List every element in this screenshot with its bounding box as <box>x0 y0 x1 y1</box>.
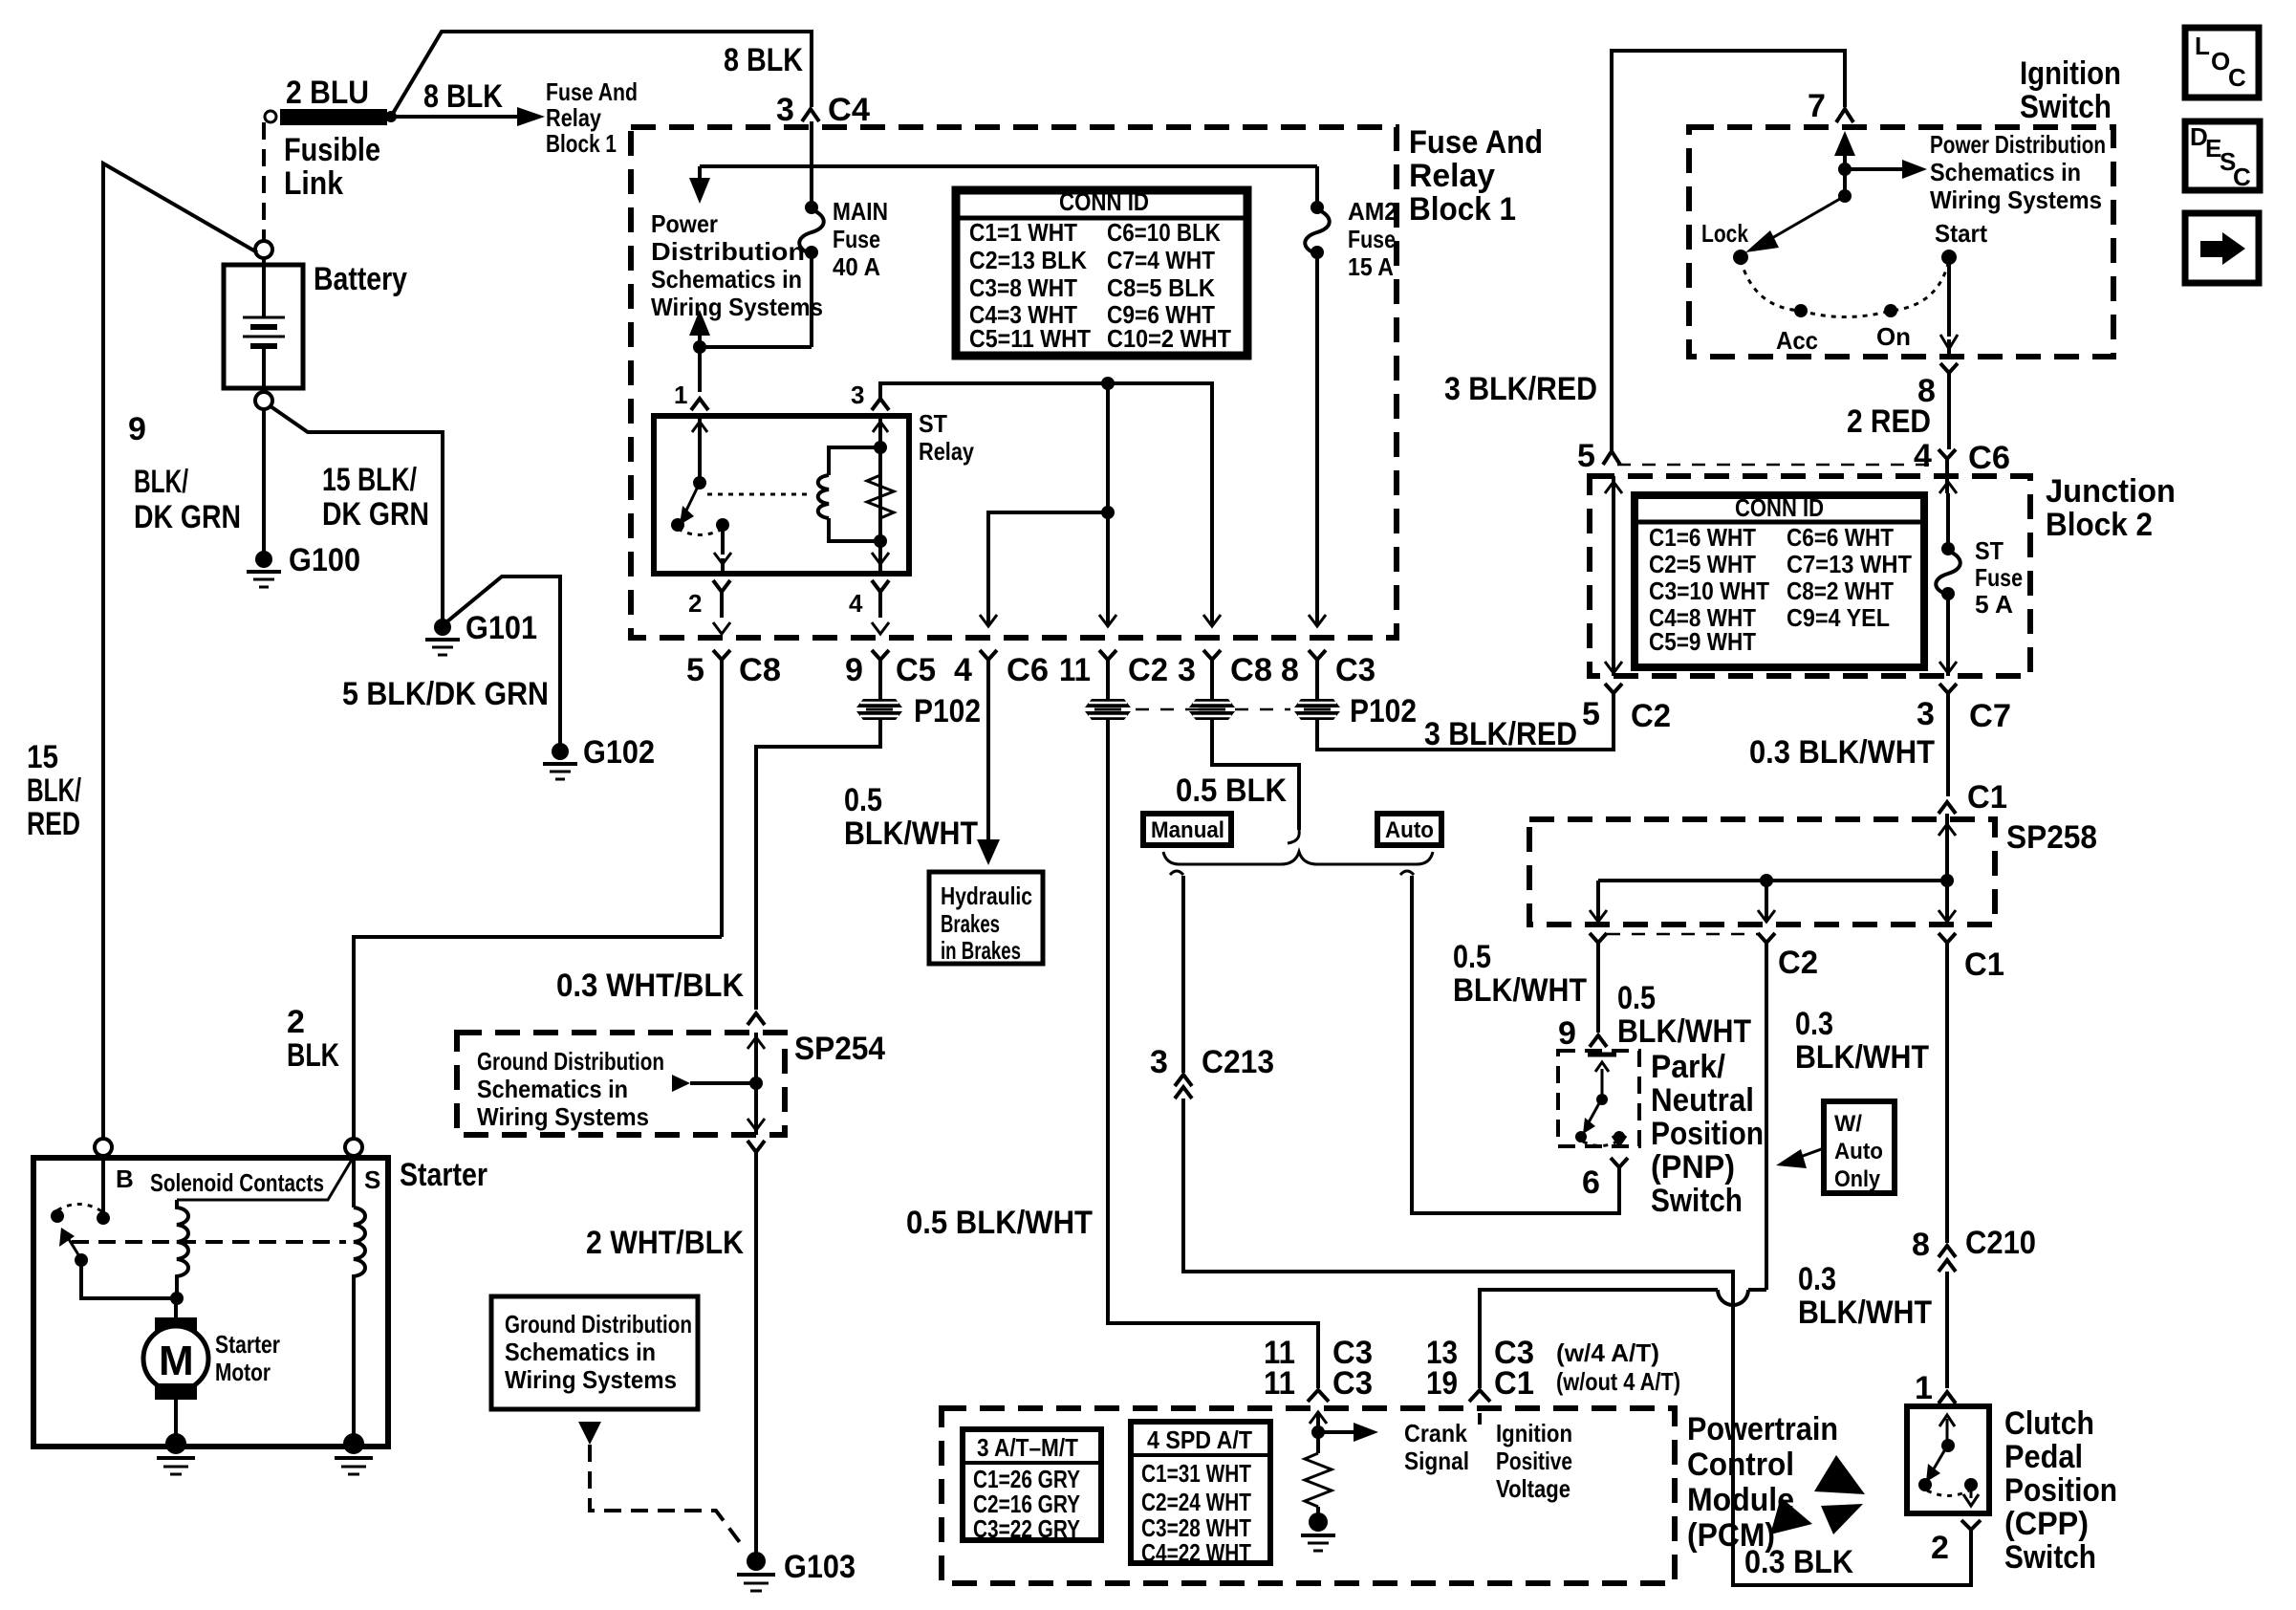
svg-text:C3=10 WHT: C3=10 WHT <box>1649 577 1769 605</box>
svg-text:C9=4 YEL: C9=4 YEL <box>1787 603 1890 632</box>
svg-text:15 A: 15 A <box>1348 252 1394 281</box>
svg-text:C1: C1 <box>1967 779 2007 816</box>
svg-text:CONN ID: CONN ID <box>1735 493 1824 522</box>
svg-text:P102: P102 <box>914 693 981 729</box>
svg-text:Block 2: Block 2 <box>2046 507 2153 543</box>
arrow up stub to junction <box>689 310 812 392</box>
ground G102 <box>543 734 655 779</box>
svg-text:BLK/: BLK/ <box>134 464 188 500</box>
svg-text:Fusible: Fusible <box>284 132 380 168</box>
connector 5 above JB2 <box>1577 438 1620 474</box>
ground G101 <box>425 610 537 655</box>
arrow down to Power Distribution text <box>689 166 710 204</box>
P102 connector at C5 <box>856 693 981 729</box>
svg-text:BLK/WHT: BLK/WHT <box>844 816 978 852</box>
P102 connector at C2 <box>1085 699 1131 720</box>
svg-text:Only: Only <box>1834 1166 1881 1192</box>
svg-text:Switch: Switch <box>1651 1183 1743 1219</box>
wire fusible link to battery (dashed) <box>262 122 266 241</box>
Park/Neutral Position (PNP) Switch dashed box <box>1558 1049 1764 1219</box>
svg-text:5: 5 <box>686 652 704 688</box>
svg-text:8: 8 <box>1281 652 1299 688</box>
Powertrain Control Module (PCM) dashed box <box>942 1408 1675 1583</box>
svg-text:Pedal: Pedal <box>2004 1439 2083 1475</box>
JB2 left wire <box>1605 476 1622 676</box>
svg-text:8 BLK: 8 BLK <box>724 42 803 78</box>
svg-text:3 BLK/RED: 3 BLK/RED <box>1424 716 1577 752</box>
svg-text:W/: W/ <box>1834 1111 1862 1137</box>
relay pin 2 <box>688 580 730 634</box>
ignition internals <box>1701 130 2106 355</box>
connector 11 C2 <box>1059 650 1168 699</box>
svg-text:C7=13 WHT: C7=13 WHT <box>1787 550 1912 578</box>
svg-text:C1=6 WHT: C1=6 WHT <box>1649 523 1756 552</box>
svg-text:ST: ST <box>919 409 947 438</box>
svg-text:P102: P102 <box>1350 693 1417 729</box>
svg-text:C1: C1 <box>1964 946 2004 983</box>
label 2 BLK <box>287 1004 339 1074</box>
svg-text:Control: Control <box>1687 1447 1794 1483</box>
svg-text:AM2: AM2 <box>1348 197 1397 226</box>
connector 3 C8b <box>1178 650 1272 699</box>
svg-text:Switch: Switch <box>2004 1539 2096 1576</box>
svg-text:C7: C7 <box>1969 698 2011 734</box>
svg-text:Park/: Park/ <box>1651 1049 1726 1085</box>
svg-text:4: 4 <box>849 589 863 618</box>
ST relay box <box>654 416 909 574</box>
pull-in winding <box>170 1200 188 1305</box>
PCM crank signal input <box>1310 1412 1469 1475</box>
W/ Auto Only box with arrow <box>1776 1101 1895 1193</box>
CONN ID table (JB2) <box>1635 493 1924 667</box>
MAIN fuse 40 A <box>799 166 888 347</box>
labels 0.5 BLK/WHT x2 and 0.3 BLK/WHT <box>1453 939 1929 1076</box>
svg-text:Fuse: Fuse <box>833 225 880 253</box>
svg-text:ST: ST <box>1975 536 2004 565</box>
svg-text:Schematics in: Schematics in <box>477 1075 628 1103</box>
svg-text:5: 5 <box>1582 696 1600 732</box>
label 9 BLK/DK GRN <box>128 411 241 535</box>
svg-text:Battery: Battery <box>314 261 407 297</box>
svg-text:11: 11 <box>1264 1365 1295 1402</box>
label 0.3 BLK/WHT (C210) <box>1798 1261 1932 1331</box>
svg-text:C210: C210 <box>1965 1225 2036 1261</box>
svg-text:3 BLK/RED: 3 BLK/RED <box>1444 371 1597 407</box>
svg-text:BLK/WHT: BLK/WHT <box>1617 1013 1751 1050</box>
svg-text:BLK/: BLK/ <box>27 772 81 809</box>
svg-text:Junction: Junction <box>2046 473 2176 510</box>
svg-text:DK GRN: DK GRN <box>134 499 241 535</box>
connector 5 C8 <box>686 650 781 937</box>
svg-text:Lock: Lock <box>1701 219 1748 248</box>
svg-text:C2: C2 <box>1631 698 1671 734</box>
connector C4 pin 3 <box>776 92 870 128</box>
svg-text:6: 6 <box>1582 1164 1600 1201</box>
4 SPD A/T table <box>1131 1422 1270 1567</box>
svg-text:Voltage: Voltage <box>1496 1474 1570 1503</box>
Starter box <box>33 1158 388 1447</box>
svg-text:S: S <box>364 1165 380 1194</box>
connector ignition pin 7 <box>1808 88 1853 124</box>
svg-text:Acc: Acc <box>1776 326 1818 355</box>
dashed linkage <box>72 1240 346 1244</box>
svg-text:Solenoid Contacts: Solenoid Contacts <box>150 1168 324 1197</box>
svg-text:RED: RED <box>27 806 80 842</box>
AM2 fuse 15 A <box>1305 166 1397 626</box>
svg-text:C2=13 BLK: C2=13 BLK <box>969 246 1087 274</box>
text Power Distribution Schematics in Wiring Systems <box>651 209 823 321</box>
label 15 BLK/DK GRN <box>322 462 429 533</box>
connector PNP pin 6 <box>1582 1158 1628 1201</box>
svg-text:Motor: Motor <box>215 1358 271 1386</box>
svg-text:C1=31 WHT: C1=31 WHT <box>1141 1459 1251 1488</box>
ground G100 <box>247 542 360 587</box>
svg-text:Position: Position <box>1651 1116 1764 1152</box>
P102 connector at C8 <box>1189 699 1235 720</box>
svg-text:0.3 WHT/BLK: 0.3 WHT/BLK <box>556 968 744 1004</box>
fusible link <box>265 75 397 202</box>
svg-text:(PCM): (PCM) <box>1687 1517 1775 1554</box>
svg-text:11: 11 <box>1059 652 1091 688</box>
DESC box <box>2185 121 2260 191</box>
svg-text:3: 3 <box>1178 652 1196 688</box>
3 A/T-M/T table <box>963 1429 1101 1543</box>
svg-text:Position: Position <box>2004 1472 2117 1509</box>
svg-text:C5=9 WHT: C5=9 WHT <box>1649 627 1756 656</box>
relay switch (left half) <box>671 418 731 572</box>
svg-text:(w/out 4 A/T): (w/out 4 A/T) <box>1556 1367 1680 1396</box>
svg-text:DK GRN: DK GRN <box>322 496 429 533</box>
svg-text:(w/4 A/T): (w/4 A/T) <box>1556 1338 1659 1367</box>
svg-text:9: 9 <box>128 411 146 447</box>
svg-text:0.5: 0.5 <box>844 782 882 818</box>
ESD symbol triangles <box>1770 1455 1865 1534</box>
forward arrow box <box>2185 213 2259 283</box>
splice SP258 dashed box <box>1529 819 1995 925</box>
wire SP258 C2 branch to PCM pins 13/19 with hop <box>1480 1290 1766 1388</box>
svg-text:Neutral: Neutral <box>1651 1082 1754 1119</box>
Auto wire with break to PNP pin 6 <box>1400 871 1619 1213</box>
svg-text:15 BLK/: 15 BLK/ <box>322 462 417 498</box>
relay pin 1 connector <box>674 381 708 410</box>
svg-text:BLK/WHT: BLK/WHT <box>1795 1039 1929 1076</box>
svg-text:Wiring Systems: Wiring Systems <box>505 1365 677 1394</box>
svg-text:Ground Distribution: Ground Distribution <box>477 1047 664 1076</box>
svg-text:Distribution: Distribution <box>651 237 805 266</box>
svg-text:C6=10 BLK: C6=10 BLK <box>1107 218 1221 247</box>
svg-text:40 A: 40 A <box>833 252 880 281</box>
svg-text:19: 19 <box>1426 1365 1458 1402</box>
PCM ignition positive voltage input <box>1480 1413 1572 1503</box>
Junction Block 2 dashed box <box>1590 476 2030 676</box>
wire C213 to CPP pin 2 (0.3 BLK) <box>1183 1099 1971 1585</box>
svg-text:On: On <box>1876 322 1911 351</box>
svg-text:B: B <box>116 1164 134 1193</box>
Auto box <box>1377 814 1441 845</box>
svg-text:M: M <box>159 1338 194 1384</box>
wire SP254 to G103 (2 WHT/BLK) <box>754 1152 758 1554</box>
svg-text:0.3 BLK/WHT: 0.3 BLK/WHT <box>1749 734 1935 771</box>
svg-text:Relay: Relay <box>546 103 601 132</box>
CPP internals <box>1918 1415 1979 1506</box>
svg-text:2 RED: 2 RED <box>1847 403 1931 440</box>
label Junction Block 2 <box>2046 473 2176 543</box>
wire C5 to SP254 (0.3 WHT/BLK) <box>756 720 880 1010</box>
relay coil and resistor (right half) <box>818 418 894 572</box>
svg-text:5 A: 5 A <box>1975 590 2013 619</box>
svg-text:C5=11 WHT: C5=11 WHT <box>969 324 1091 353</box>
connector PNP pin 9 <box>1558 1015 1607 1052</box>
svg-text:Relay: Relay <box>919 437 974 466</box>
Manual box <box>1143 814 1231 845</box>
svg-text:Wiring Systems: Wiring Systems <box>651 293 823 321</box>
svg-text:Ignition: Ignition <box>1496 1419 1572 1447</box>
wire C8 pin3 to brace (0.5 BLK) <box>1176 720 1299 843</box>
svg-text:2: 2 <box>1931 1530 1949 1566</box>
wire C2 pin11 to PCM pin 11 (0.5 BLK/WHT crank signal) <box>1108 720 1318 1388</box>
connector 3 C7 below JB2 <box>1917 684 2011 796</box>
svg-text:BLK/WHT: BLK/WHT <box>1798 1295 1932 1331</box>
svg-text:Schematics in: Schematics in <box>505 1338 656 1366</box>
label Powertrain Control Module (PCM) <box>1687 1411 1838 1554</box>
svg-text:C8: C8 <box>739 652 781 688</box>
PCM pin labels 11 C3 / 11 C3 <box>1264 1335 1373 1402</box>
connector C213 pin 3 <box>1150 1044 1274 1106</box>
wire battery positive to 15 BLK/RED vertical <box>103 163 257 1138</box>
wire C8 pin5 to starter S terminal (2 BLK) <box>354 937 722 1138</box>
wire C4 into block, bus y=174 <box>700 121 1317 166</box>
svg-text:G103: G103 <box>784 1549 856 1585</box>
svg-text:C2: C2 <box>1778 945 1818 981</box>
svg-text:4 SPD A/T: 4 SPD A/T <box>1147 1425 1252 1454</box>
B terminal <box>95 1139 134 1218</box>
svg-text:4: 4 <box>954 652 972 688</box>
hydraulic brakes box <box>929 872 1043 965</box>
svg-text:2 BLU: 2 BLU <box>286 75 369 111</box>
ignition switch dashed box <box>1689 127 2113 357</box>
ST fuse 5 A <box>1936 482 2023 676</box>
svg-text:3: 3 <box>776 92 794 128</box>
svg-text:C3=22 GRY: C3=22 GRY <box>973 1514 1080 1543</box>
connector 5 C2 below JB2 <box>1582 684 1671 734</box>
wire JB2 C2 pin5 up to ignition pin 7 (3 BLK/RED) <box>1612 51 1845 453</box>
Clutch Pedal Position (CPP) Switch box <box>1907 1405 2117 1576</box>
svg-text:Ground Distribution: Ground Distribution <box>505 1310 692 1338</box>
starter motor <box>143 1298 280 1443</box>
svg-text:C8=5 BLK: C8=5 BLK <box>1107 273 1215 302</box>
junction and wires to C2 and C6 <box>980 377 1116 626</box>
wire C3 pin8 to JB2 C2 pin5 (3 BLK/RED) <box>1317 703 1614 750</box>
connector 4 C6 into JB2 <box>1914 438 2010 493</box>
svg-text:Manual: Manual <box>1151 817 1224 843</box>
ground distribution schematics box (solid) <box>491 1296 745 1549</box>
svg-text:Wiring Systems: Wiring Systems <box>1930 185 2102 214</box>
svg-text:Start: Start <box>1935 219 1987 248</box>
P102 connector at C3 <box>1294 693 1417 729</box>
svg-text:5: 5 <box>1577 438 1595 474</box>
relay dashed actuation link <box>707 493 810 496</box>
svg-text:SP258: SP258 <box>2006 819 2097 856</box>
svg-text:Block 1: Block 1 <box>546 129 617 158</box>
svg-text:C10=2 WHT: C10=2 WHT <box>1107 324 1231 353</box>
svg-text:0.5 BLK: 0.5 BLK <box>1176 772 1287 809</box>
svg-text:Switch: Switch <box>2020 89 2112 125</box>
hold-in winding <box>354 1207 365 1443</box>
connectors below SP258 <box>1590 933 2004 1290</box>
svg-text:C3=8 WHT: C3=8 WHT <box>969 273 1077 302</box>
label ST Relay <box>919 409 974 466</box>
svg-text:4: 4 <box>1914 438 1932 474</box>
svg-text:Auto: Auto <box>1385 817 1434 843</box>
svg-text:C1: C1 <box>1494 1365 1534 1402</box>
svg-text:C6: C6 <box>1007 652 1049 688</box>
label 15 BLK/RED <box>27 739 81 842</box>
svg-text:8 BLK: 8 BLK <box>423 78 503 115</box>
svg-text:Clutch: Clutch <box>2004 1405 2094 1442</box>
svg-text:C5: C5 <box>896 652 936 688</box>
svg-text:G102: G102 <box>583 734 655 771</box>
svg-text:C7=4 WHT: C7=4 WHT <box>1107 246 1215 274</box>
LOC box <box>2185 28 2259 98</box>
svg-text:MAIN: MAIN <box>833 197 888 226</box>
S terminal <box>345 1139 380 1207</box>
label Solenoid Contacts with callout <box>150 1160 352 1200</box>
svg-text:2 WHT/BLK: 2 WHT/BLK <box>586 1225 744 1261</box>
svg-text:8: 8 <box>1912 1227 1930 1263</box>
svg-text:C2=5 WHT: C2=5 WHT <box>1649 550 1756 578</box>
svg-text:C2: C2 <box>1128 652 1168 688</box>
Manual wire with break to C213 <box>1170 871 1183 1073</box>
Fuse And Relay Block 1 dashed box <box>631 127 1397 638</box>
svg-text:Brakes: Brakes <box>941 909 1000 938</box>
svg-text:Schematics in: Schematics in <box>651 265 802 294</box>
wire fusible link to C4 (8 BLK) <box>391 32 812 117</box>
svg-text:G101: G101 <box>466 610 537 646</box>
svg-text:(PNP): (PNP) <box>1651 1149 1735 1186</box>
wire C6 to hydraulic brakes <box>844 782 1000 865</box>
wire SP258 C1 branch: connector 8 C210 <box>1912 1225 2036 1388</box>
PCM crank pull-down resistor to ground <box>1301 1453 1335 1551</box>
svg-text:Schematics in: Schematics in <box>1930 158 2081 186</box>
svg-text:Ignition: Ignition <box>2020 55 2121 92</box>
ground G103 <box>737 1549 856 1591</box>
svg-text:Link: Link <box>284 165 343 202</box>
svg-text:C8=2 WHT: C8=2 WHT <box>1787 577 1894 605</box>
svg-text:0.3: 0.3 <box>1795 1006 1833 1042</box>
wire battery negative to G101 <box>271 406 443 620</box>
svg-text:Power Distribution: Power Distribution <box>1930 130 2106 159</box>
svg-text:2: 2 <box>688 589 702 618</box>
relay pin 4 <box>849 580 889 634</box>
PCM pin labels 13 C3 / 19 C1 <box>1426 1335 1680 1402</box>
svg-text:9: 9 <box>1558 1015 1576 1052</box>
svg-text:3: 3 <box>1150 1044 1168 1080</box>
connector 9 C5 <box>845 650 936 701</box>
svg-text:9: 9 <box>845 652 863 688</box>
svg-text:5 BLK/DK GRN: 5 BLK/DK GRN <box>342 676 549 712</box>
connector 8 C3 <box>1281 650 1375 699</box>
svg-text:1: 1 <box>674 381 687 409</box>
svg-text:Fuse: Fuse <box>1975 563 2023 592</box>
SP258 internal wires <box>1590 819 1956 922</box>
svg-text:Signal: Signal <box>1404 1447 1469 1475</box>
svg-text:0.3: 0.3 <box>1798 1261 1836 1297</box>
svg-text:C4=22 WHT: C4=22 WHT <box>1141 1538 1251 1567</box>
wire relay pin3 to C8 bus <box>851 381 1221 626</box>
svg-text:0.5: 0.5 <box>1453 939 1491 975</box>
svg-text:Auto: Auto <box>1834 1139 1883 1164</box>
svg-text:SP254: SP254 <box>794 1031 885 1067</box>
svg-text:BLK/WHT: BLK/WHT <box>1453 972 1587 1009</box>
svg-text:C: C <box>2228 63 2246 92</box>
svg-text:C213: C213 <box>1202 1044 1274 1080</box>
svg-text:3: 3 <box>1917 696 1935 732</box>
svg-text:Starter: Starter <box>400 1157 487 1193</box>
svg-text:C3: C3 <box>1332 1365 1373 1402</box>
wire 8 BLK arrow to fuse and relay block 1 <box>394 77 638 158</box>
svg-text:Fuse And: Fuse And <box>1409 124 1543 161</box>
connector CPP pin 2 <box>1931 1520 1981 1566</box>
svg-text:C1=1 WHT: C1=1 WHT <box>969 218 1077 247</box>
svg-text:3 A/T–M/T: 3 A/T–M/T <box>977 1433 1078 1462</box>
Ignition Switch label <box>2020 55 2121 125</box>
thin dashed connector line <box>1617 464 1940 467</box>
svg-text:Hydraulic: Hydraulic <box>941 881 1032 910</box>
svg-text:15: 15 <box>27 739 58 775</box>
brace under Manual/Auto <box>1163 852 1433 864</box>
svg-text:Fuse: Fuse <box>1348 225 1396 253</box>
connector CPP pin 1 <box>1915 1370 1956 1406</box>
svg-text:Fuse And: Fuse And <box>546 77 638 106</box>
svg-text:3: 3 <box>851 381 864 409</box>
splice SP254 <box>457 1013 885 1152</box>
svg-text:G100: G100 <box>289 542 360 578</box>
svg-text:C6: C6 <box>1968 440 2010 476</box>
svg-text:BLK: BLK <box>287 1037 339 1074</box>
connector 4 C6 <box>954 650 1049 845</box>
thin dashed line between P102 connectors <box>1136 708 1290 711</box>
svg-text:C: C <box>2233 163 2251 191</box>
svg-text:C6=6 WHT: C6=6 WHT <box>1787 523 1894 552</box>
svg-text:2: 2 <box>287 1004 305 1040</box>
svg-text:C2=24 WHT: C2=24 WHT <box>1141 1488 1251 1516</box>
connector C1 above SP258 <box>1939 779 2007 819</box>
svg-text:C4: C4 <box>828 92 870 128</box>
CONN ID table (fuse block) <box>956 187 1247 356</box>
battery <box>224 241 407 409</box>
PNP internals <box>1575 1055 1626 1146</box>
svg-text:0.5: 0.5 <box>1617 980 1656 1016</box>
connector 8 below ignition <box>1917 363 1958 449</box>
svg-text:Crank: Crank <box>1404 1419 1467 1447</box>
svg-text:7: 7 <box>1808 88 1826 124</box>
svg-text:CONN ID: CONN ID <box>1059 187 1149 216</box>
svg-text:L: L <box>2195 32 2210 60</box>
wire G101 to G102 (5 BLK/DK GRN) <box>447 577 560 744</box>
svg-text:Wiring Systems: Wiring Systems <box>477 1102 649 1131</box>
wire battery negative to G100 <box>262 409 266 552</box>
svg-text:(CPP): (CPP) <box>2004 1506 2089 1542</box>
svg-text:Starter: Starter <box>215 1330 280 1359</box>
svg-text:1: 1 <box>1915 1370 1933 1406</box>
svg-text:0.5 BLK/WHT: 0.5 BLK/WHT <box>906 1205 1093 1241</box>
svg-text:Power: Power <box>651 209 718 238</box>
svg-text:Relay: Relay <box>1409 158 1495 194</box>
svg-text:Positive: Positive <box>1496 1447 1572 1475</box>
svg-text:C3: C3 <box>1335 652 1375 688</box>
label Fuse And Relay Block 1 <box>1409 124 1543 228</box>
starter grounds <box>157 1433 195 1474</box>
